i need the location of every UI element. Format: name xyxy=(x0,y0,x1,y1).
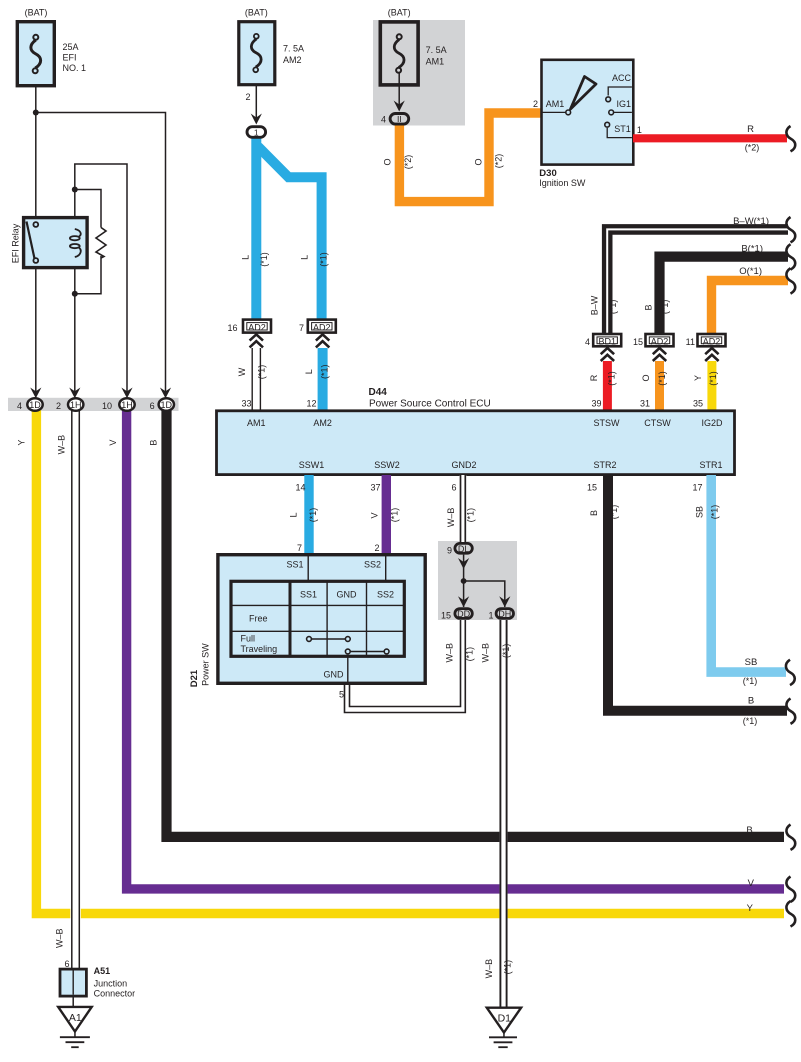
wire DL to junction node xyxy=(463,555,465,581)
svg-text:Power Source Control ECU: Power Source Control ECU xyxy=(369,399,491,410)
svg-text:Traveling: Traveling xyxy=(241,644,278,654)
svg-text:IG2D: IG2D xyxy=(701,418,723,428)
svg-text:AD2: AD2 xyxy=(651,336,669,346)
wire V purple SSW2 to Power SW pin 2 xyxy=(382,475,391,554)
svg-text:B: B xyxy=(644,304,654,310)
svg-text:W: W xyxy=(237,367,247,376)
connector 7 AD2 xyxy=(308,320,336,333)
wire AM2 fuse to connector 1 xyxy=(255,86,257,120)
wire B black STR2 down and right xyxy=(608,475,787,711)
contact SS1-GND xyxy=(307,637,351,642)
wire V purple from 10 1H to bottom then right xyxy=(127,410,784,889)
svg-text:W–B: W–B xyxy=(445,643,455,663)
wire O orange from right edge to 11 AD2 xyxy=(712,281,789,335)
wire W-B from DH down to ground D1 xyxy=(499,620,507,1008)
svg-text:L: L xyxy=(304,369,314,374)
svg-text:14: 14 xyxy=(295,483,305,493)
svg-text:15: 15 xyxy=(441,611,451,621)
wire A51 to ground A1 xyxy=(72,996,74,1007)
svg-text:GND2: GND2 xyxy=(451,460,476,470)
svg-text:Y: Y xyxy=(747,903,754,914)
chevron below 15 AD2 xyxy=(653,348,666,361)
svg-text:Full: Full xyxy=(241,634,256,644)
svg-text:1: 1 xyxy=(254,127,259,137)
power switch D21 xyxy=(218,555,425,684)
chevron below 7 AD2 xyxy=(316,334,329,347)
svg-text:(*1): (*1) xyxy=(657,371,667,386)
svg-text:(*1): (*1) xyxy=(503,960,513,975)
wire W-B GND2 from ECU to DL xyxy=(460,475,467,542)
svg-text:GND: GND xyxy=(324,670,345,680)
break symbol on B wire upper xyxy=(786,244,795,269)
svg-text:O: O xyxy=(641,374,651,381)
wire resistor bottom lead xyxy=(75,256,101,294)
svg-text:W–B: W–B xyxy=(484,959,494,979)
connector 10 1H xyxy=(119,398,134,411)
svg-text:(*1): (*1) xyxy=(501,644,511,659)
wire Y yellow to ECU pin 35 xyxy=(707,361,716,410)
svg-text:AM2: AM2 xyxy=(313,418,332,428)
svg-text:II: II xyxy=(397,114,402,124)
wire junction to right drop for 6 1D xyxy=(36,113,166,395)
break symbol on O wire xyxy=(786,268,795,293)
svg-text:EFI: EFI xyxy=(63,53,77,63)
svg-text:(*1): (*1) xyxy=(608,300,618,315)
resistor parallel to relay coil xyxy=(96,228,106,259)
gray background panel behind DL/DD/DH connectors xyxy=(438,541,517,620)
break symbol on B-W wire xyxy=(786,217,795,242)
break symbol on R wire xyxy=(786,126,795,151)
svg-text:STR1: STR1 xyxy=(699,460,722,470)
connector 2 1H xyxy=(68,398,83,411)
svg-text:AM1: AM1 xyxy=(247,418,266,428)
wire B black from 6 1D to bottom then right xyxy=(167,410,785,837)
svg-text:ACC: ACC xyxy=(612,73,632,83)
svg-text:(*1): (*1) xyxy=(466,508,476,523)
svg-text:1: 1 xyxy=(488,611,493,621)
svg-text:Power SW: Power SW xyxy=(200,643,210,686)
svg-text:(*1): (*1) xyxy=(708,371,718,386)
svg-text:SSW2: SSW2 xyxy=(374,460,400,470)
contact GND-SS2 xyxy=(345,649,389,654)
arrow into connector II xyxy=(394,101,405,112)
svg-text:(BAT): (BAT) xyxy=(25,8,48,18)
svg-text:10: 10 xyxy=(102,401,112,411)
svg-text:V: V xyxy=(748,878,755,889)
svg-text:DL: DL xyxy=(458,544,470,554)
arrow below DL xyxy=(458,558,469,569)
svg-text:B: B xyxy=(148,440,158,446)
svg-text:1: 1 xyxy=(637,125,642,135)
svg-text:5: 5 xyxy=(339,690,344,700)
wire L blue from connector 1 to 16 AD2 xyxy=(251,135,261,320)
wire SB sky blue STR1 down and right xyxy=(711,475,786,672)
svg-text:Junction: Junction xyxy=(94,979,128,989)
svg-text:A51: A51 xyxy=(94,966,111,976)
svg-text:SB: SB xyxy=(745,657,758,668)
ground D1 xyxy=(487,1008,521,1047)
svg-text:SS1: SS1 xyxy=(300,590,317,600)
chevron below 11 AD2 xyxy=(705,348,718,361)
node junction below EFI fuse xyxy=(33,110,39,116)
node coil-resistor bottom xyxy=(72,291,78,297)
svg-text:B–W: B–W xyxy=(589,295,599,315)
svg-text:7. 5A: 7. 5A xyxy=(426,45,447,55)
svg-text:6: 6 xyxy=(150,401,155,411)
svg-text:AM1: AM1 xyxy=(426,57,445,67)
svg-text:4: 4 xyxy=(381,115,386,125)
node ground junction xyxy=(461,578,467,584)
break symbol on SB wire xyxy=(786,660,795,685)
svg-text:(*1): (*1) xyxy=(319,252,329,267)
wire relay switch to connector 4 1D xyxy=(35,261,37,394)
svg-text:17: 17 xyxy=(692,483,702,493)
svg-text:(*1): (*1) xyxy=(464,647,474,662)
svg-text:(*1): (*1) xyxy=(259,252,269,267)
svg-text:B: B xyxy=(746,825,752,836)
svg-text:(*2): (*2) xyxy=(745,143,760,153)
svg-text:DH: DH xyxy=(498,609,511,619)
fuse 7.5A AM1 xyxy=(380,22,418,85)
wire GND inside power switch xyxy=(347,656,349,683)
wire W white to ECU pin 33 xyxy=(252,348,261,410)
svg-text:2: 2 xyxy=(374,543,379,553)
arrow into 10 1H xyxy=(121,388,132,399)
svg-text:Y: Y xyxy=(693,375,703,381)
svg-text:STR2: STR2 xyxy=(593,460,616,470)
connector 9 DL xyxy=(455,543,472,554)
svg-text:B: B xyxy=(589,510,599,516)
connector 15 AD2 xyxy=(646,334,674,346)
svg-text:1D: 1D xyxy=(29,400,41,410)
svg-text:9: 9 xyxy=(447,546,452,556)
wire B black from right edge to 15 AD2 xyxy=(660,257,789,334)
break symbol on Y wire xyxy=(786,901,795,926)
break symbol on lower B wire xyxy=(786,698,795,723)
wire L blue SSW1 to Power SW pin 7 xyxy=(304,475,313,554)
svg-text:7. 5A: 7. 5A xyxy=(283,44,304,54)
svg-text:11: 11 xyxy=(686,337,695,347)
svg-text:W–B: W–B xyxy=(57,435,67,455)
wire AM1 fuse to connector II xyxy=(398,73,400,107)
connector 4 1D xyxy=(27,398,42,411)
connector 15 DD xyxy=(455,609,472,620)
wire B-W black/white from right edge to 4 BD1 xyxy=(607,229,788,334)
svg-text:2: 2 xyxy=(56,401,61,411)
svg-text:SS1: SS1 xyxy=(286,560,303,570)
wire fuse EFI to junction and relay switch xyxy=(35,87,37,225)
svg-text:2: 2 xyxy=(245,92,250,102)
svg-text:AM1: AM1 xyxy=(546,99,565,109)
svg-text:1H: 1H xyxy=(121,400,133,410)
svg-text:1H: 1H xyxy=(70,400,82,410)
svg-text:B(*1): B(*1) xyxy=(741,244,763,255)
svg-text:O(*1): O(*1) xyxy=(739,266,762,277)
gray band behind body connectors 1D/1H xyxy=(8,398,179,411)
arrow into 4 1D xyxy=(30,388,41,399)
arrow into DD xyxy=(458,596,469,607)
svg-text:SS2: SS2 xyxy=(377,590,394,600)
fuse 25A EFI NO.1 xyxy=(17,22,54,86)
svg-text:37: 37 xyxy=(370,483,380,493)
svg-text:4: 4 xyxy=(585,337,590,347)
svg-text:W–B: W–B xyxy=(480,643,490,663)
node coil-resistor top xyxy=(72,187,78,193)
svg-text:39: 39 xyxy=(591,399,601,409)
chevron below 16 AD2 xyxy=(250,334,263,347)
svg-text:(*1): (*1) xyxy=(743,716,758,726)
svg-text:2: 2 xyxy=(533,99,538,109)
svg-text:EFI Relay: EFI Relay xyxy=(11,223,21,263)
connector 4 BD1 xyxy=(593,334,621,346)
ground A1 xyxy=(58,1007,91,1047)
svg-text:D1: D1 xyxy=(498,1013,512,1025)
svg-text:B–W(*1): B–W(*1) xyxy=(733,216,769,227)
wire resistor top lead xyxy=(75,190,101,228)
wire W-B from 2 1H down to junction connector A51 xyxy=(70,410,81,969)
svg-text:A1: A1 xyxy=(69,1012,82,1024)
svg-text:(BAT): (BAT) xyxy=(245,8,268,18)
contact table of power switch xyxy=(231,581,404,656)
svg-text:(*1): (*1) xyxy=(256,365,266,380)
wire R red to ECU pin 39 xyxy=(603,361,612,410)
svg-text:(*1): (*1) xyxy=(743,676,758,686)
svg-text:NO. 1: NO. 1 xyxy=(63,63,87,73)
svg-text:Connector: Connector xyxy=(94,989,136,999)
ECU D44 Power Source Control ECU xyxy=(217,411,735,475)
svg-text:Free: Free xyxy=(249,614,268,624)
svg-text:(*1): (*1) xyxy=(319,365,329,380)
svg-text:6: 6 xyxy=(64,959,69,969)
wire coil top node to 10 1H drop xyxy=(75,164,127,394)
svg-text:D21: D21 xyxy=(189,669,200,687)
svg-text:V: V xyxy=(370,512,380,518)
fuse 7.5A AM2 xyxy=(239,22,275,85)
arrow into connector 1 xyxy=(251,114,262,125)
svg-text:(*1): (*1) xyxy=(609,505,619,520)
svg-text:15: 15 xyxy=(633,337,643,347)
svg-text:R: R xyxy=(747,124,754,135)
svg-text:(*1): (*1) xyxy=(607,371,617,386)
svg-text:GND: GND xyxy=(337,590,358,600)
gray background panel behind AM1 fuse xyxy=(373,20,465,126)
svg-text:(*2): (*2) xyxy=(494,154,504,169)
svg-text:(*1): (*1) xyxy=(660,300,670,315)
svg-text:35: 35 xyxy=(693,399,703,409)
svg-text:1D: 1D xyxy=(161,400,173,410)
svg-text:16: 16 xyxy=(227,323,237,333)
wire O orange to ECU pin 31 xyxy=(655,361,664,410)
svg-text:7: 7 xyxy=(299,323,304,333)
connector II xyxy=(390,114,409,125)
svg-text:33: 33 xyxy=(241,399,251,409)
svg-text:7: 7 xyxy=(297,543,302,553)
svg-text:L: L xyxy=(300,255,310,260)
svg-text:B: B xyxy=(748,696,754,707)
ignition switch D30 xyxy=(542,60,634,165)
svg-text:(*2): (*2) xyxy=(403,155,413,170)
junction connector A51 xyxy=(60,969,86,996)
wire coil bottom to connector 2 1H xyxy=(74,257,76,394)
svg-text:AD2: AD2 xyxy=(248,322,266,332)
svg-text:O: O xyxy=(382,158,392,165)
svg-text:SSW1: SSW1 xyxy=(299,460,325,470)
svg-text:(*1): (*1) xyxy=(308,508,318,523)
svg-text:12: 12 xyxy=(306,399,316,409)
connector 1 DH xyxy=(496,609,513,620)
svg-text:W–B: W–B xyxy=(446,508,456,528)
svg-text:R: R xyxy=(589,374,599,381)
svg-text:Ignition SW: Ignition SW xyxy=(539,178,586,188)
arrow into DH xyxy=(499,596,510,607)
arrow into 6 1D xyxy=(160,388,171,399)
svg-text:ST1: ST1 xyxy=(614,124,631,134)
svg-text:CTSW: CTSW xyxy=(644,418,671,428)
svg-text:AD2: AD2 xyxy=(313,322,331,332)
svg-text:STSW: STSW xyxy=(594,418,621,428)
svg-text:4: 4 xyxy=(17,401,22,411)
wire L blue branch to 7 AD2 xyxy=(258,147,322,320)
wire R red from ST1 to right xyxy=(633,134,787,142)
svg-text:D44: D44 xyxy=(369,387,388,398)
svg-text:31: 31 xyxy=(640,399,650,409)
svg-text:(*1): (*1) xyxy=(710,505,720,520)
svg-text:O: O xyxy=(474,158,484,165)
wire L blue to ECU pin 12 xyxy=(318,348,328,410)
svg-text:L: L xyxy=(289,512,299,517)
chevron below 4 BD1 xyxy=(601,348,614,361)
connector 1 xyxy=(247,127,266,138)
wire W-B from DD to power switch GND pin 5 xyxy=(345,620,466,713)
wire Y yellow from 4 1D to bottom then right xyxy=(36,410,784,914)
svg-text:V: V xyxy=(108,440,118,446)
svg-text:AM2: AM2 xyxy=(283,55,302,65)
wire junction to DD xyxy=(463,581,465,607)
wire O orange from II to ignition SW xyxy=(399,113,541,202)
svg-text:AD2: AD2 xyxy=(703,336,721,346)
svg-text:IG1: IG1 xyxy=(617,99,632,109)
wire junction to DH xyxy=(464,581,505,607)
svg-text:L: L xyxy=(241,255,251,260)
arrow into 2 1H xyxy=(69,388,80,399)
svg-text:W–B: W–B xyxy=(55,928,65,948)
svg-text:(*1): (*1) xyxy=(390,508,400,523)
svg-text:6: 6 xyxy=(451,483,456,493)
connector 16 AD2 xyxy=(243,320,271,333)
svg-text:(BAT): (BAT) xyxy=(388,8,411,18)
relay EFI Relay xyxy=(24,218,88,268)
break symbol on B wire xyxy=(786,825,795,850)
connector 6 1D xyxy=(159,398,174,411)
svg-text:BD1: BD1 xyxy=(598,336,616,346)
svg-text:25A: 25A xyxy=(63,42,79,52)
svg-text:SB: SB xyxy=(694,506,704,518)
connector 11 AD2 xyxy=(698,334,726,346)
svg-text:15: 15 xyxy=(587,483,597,493)
break symbol on V wire xyxy=(786,877,795,902)
svg-text:Y: Y xyxy=(17,440,27,446)
svg-text:DD: DD xyxy=(457,609,470,619)
svg-text:SS2: SS2 xyxy=(364,560,381,570)
